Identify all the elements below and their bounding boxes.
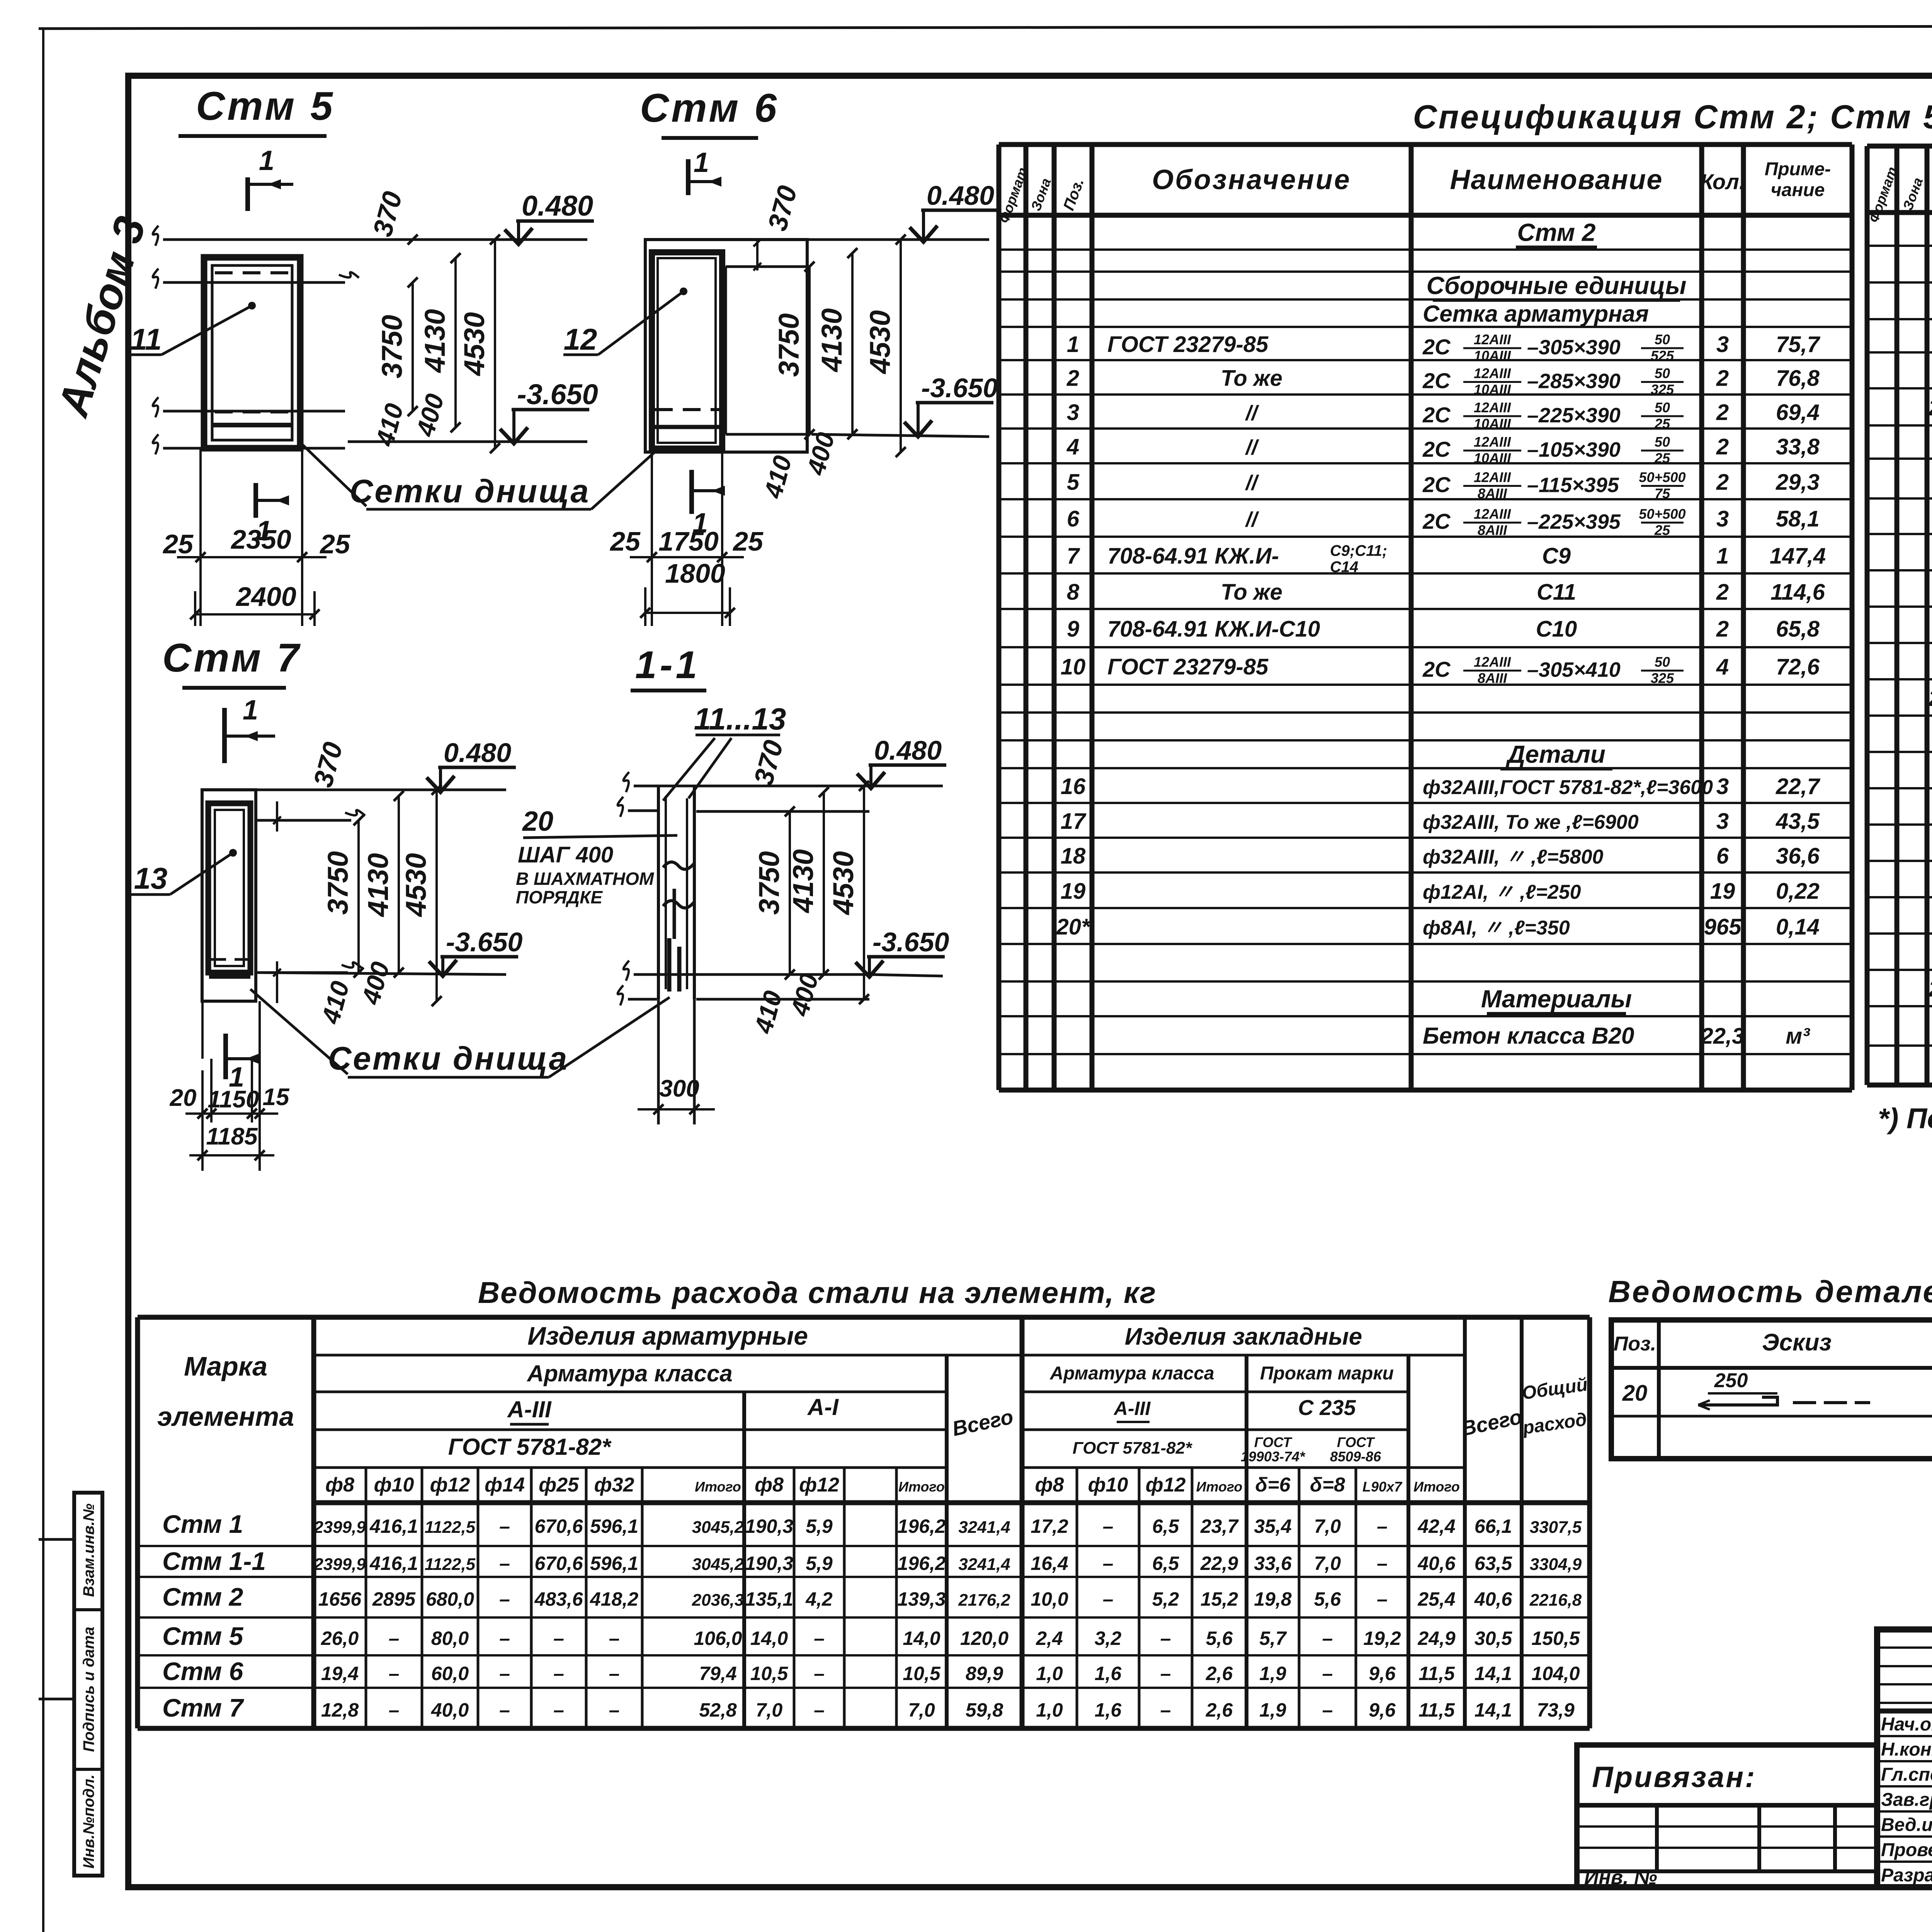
svg-text:5,7: 5,7 bbox=[1259, 1628, 1287, 1649]
svg-text:-3.650: -3.650 bbox=[921, 373, 998, 403]
svg-text:12АIII: 12АIII bbox=[1474, 469, 1511, 485]
svg-text:6: 6 bbox=[1716, 844, 1729, 869]
svg-text:10АIII: 10АIII bbox=[1474, 450, 1511, 466]
Stm5 wall panel outer bbox=[204, 257, 300, 448]
svg-text:12АIII: 12АIII bbox=[1474, 434, 1511, 450]
svg-text:11...13: 11...13 bbox=[694, 702, 786, 736]
svg-text:65,8: 65,8 bbox=[1776, 617, 1820, 642]
svg-text:3241,4: 3241,4 bbox=[958, 1518, 1010, 1537]
svg-text:33,6: 33,6 bbox=[1254, 1553, 1292, 1574]
svg-text:чание: чание bbox=[1771, 180, 1825, 201]
svg-text:69,4: 69,4 bbox=[1776, 400, 1820, 425]
svg-text:Итого: Итого bbox=[898, 1479, 945, 1495]
svg-text:Стм 7: Стм 7 bbox=[162, 1694, 245, 1722]
svg-text:40,6: 40,6 bbox=[1474, 1588, 1513, 1610]
svg-text:Провер.: Провер. bbox=[1881, 1840, 1932, 1861]
svg-text:Кол.: Кол. bbox=[1700, 170, 1745, 194]
svg-text:30,5: 30,5 bbox=[1475, 1628, 1513, 1649]
svg-text:–: – bbox=[1377, 1515, 1388, 1537]
svg-text:10,5: 10,5 bbox=[750, 1663, 789, 1684]
svg-text:2895: 2895 bbox=[372, 1588, 416, 1610]
Stm7 elevation -3.650 bbox=[256, 973, 506, 975]
svg-text:ГОСТ: ГОСТ bbox=[1254, 1434, 1293, 1450]
svg-text:14,1: 14,1 bbox=[1475, 1699, 1512, 1721]
svg-text:0.480: 0.480 bbox=[874, 735, 942, 765]
svg-text:–285×390: –285×390 bbox=[1527, 370, 1621, 393]
svg-text:Привязан:: Привязан: bbox=[1592, 1761, 1756, 1794]
svg-text:17,2: 17,2 bbox=[1031, 1515, 1068, 1537]
svg-text:–: – bbox=[814, 1699, 825, 1721]
svg-text:12АIII: 12АIII bbox=[1474, 366, 1511, 381]
svg-text:Марка: Марка bbox=[184, 1351, 267, 1381]
svg-text:0.480: 0.480 bbox=[522, 190, 593, 222]
svg-text:Обозначение: Обозначение bbox=[1152, 165, 1351, 196]
svg-text:25: 25 bbox=[1654, 450, 1670, 466]
svg-text:5,9: 5,9 bbox=[806, 1515, 833, 1537]
svg-text:16: 16 bbox=[1061, 774, 1086, 799]
fold tick lower bbox=[39, 1698, 73, 1701]
svg-text:–: – bbox=[499, 1663, 510, 1684]
svg-text:20: 20 bbox=[522, 806, 553, 837]
Stm5 vertical dims 3750 4130 4530 bbox=[412, 282, 414, 411]
svg-text:2: 2 bbox=[1716, 470, 1729, 495]
Stm6 outer box bbox=[645, 240, 807, 452]
sketch dash 2 bbox=[1824, 1401, 1847, 1404]
Stm5 bottom slab inner line bbox=[212, 423, 292, 427]
svg-text:25: 25 bbox=[1654, 416, 1670, 432]
svg-text:1: 1 bbox=[692, 508, 708, 539]
svg-text:965: 965 bbox=[1704, 915, 1742, 940]
svg-text:Стм 5: Стм 5 bbox=[162, 1622, 244, 1650]
Stm7 wall outer bbox=[202, 790, 256, 1001]
svg-text:ГОСТ 5781-82*: ГОСТ 5781-82* bbox=[1073, 1439, 1192, 1458]
svg-text:9: 9 bbox=[1067, 617, 1079, 642]
Stm7 bottom slab to right bbox=[256, 971, 348, 974]
svg-text:525: 525 bbox=[1651, 348, 1674, 364]
svg-text:2С: 2С bbox=[1422, 403, 1451, 427]
svg-text:8АIII: 8АIII bbox=[1478, 486, 1507, 502]
svg-text:Изделия закладные: Изделия закладные bbox=[1125, 1323, 1362, 1350]
svg-text:22,7: 22,7 bbox=[1776, 774, 1821, 799]
left margin strip bbox=[74, 1493, 102, 1876]
Stm5 ext line left bbox=[199, 448, 202, 626]
svg-text:1656: 1656 bbox=[318, 1588, 362, 1610]
svg-text:670,6: 670,6 bbox=[534, 1515, 583, 1537]
svg-text:Итого: Итого bbox=[1196, 1479, 1243, 1495]
svg-text:147,4: 147,4 bbox=[1770, 544, 1826, 569]
Stm6 section mark bottom bbox=[689, 470, 694, 514]
svg-text:58,1: 58,1 bbox=[1776, 507, 1820, 532]
svg-text:–: – bbox=[1160, 1663, 1171, 1684]
svg-text:С14: С14 bbox=[1330, 559, 1358, 576]
1-1 bar hooks bbox=[663, 862, 694, 869]
svg-text:7,0: 7,0 bbox=[908, 1699, 935, 1721]
svg-text:79,4: 79,4 bbox=[699, 1663, 736, 1684]
svg-text:596,1: 596,1 bbox=[590, 1515, 638, 1537]
svg-text:14,0: 14,0 bbox=[750, 1628, 788, 1649]
svg-text:7,0: 7,0 bbox=[1314, 1515, 1341, 1537]
svg-text:ф32: ф32 bbox=[594, 1474, 634, 1496]
svg-text:9,6: 9,6 bbox=[1369, 1663, 1396, 1684]
svg-text:–: – bbox=[499, 1699, 510, 1721]
svg-text:8509-86: 8509-86 bbox=[1330, 1449, 1381, 1464]
sheet outer border left bbox=[42, 29, 44, 1932]
svg-text:3: 3 bbox=[1716, 809, 1729, 834]
svg-text:–: – bbox=[1322, 1699, 1333, 1721]
svg-text:708-64.91 КЖ.И-: 708-64.91 КЖ.И- bbox=[1107, 544, 1279, 569]
svg-text:ф12АI, 〃 ,ℓ=250: ф12АI, 〃 ,ℓ=250 bbox=[1423, 881, 1581, 903]
svg-text:В ШАХМАТНОМ: В ШАХМАТНОМ bbox=[516, 869, 655, 889]
svg-text:75,7: 75,7 bbox=[1776, 332, 1821, 357]
svg-text:670,6: 670,6 bbox=[534, 1553, 583, 1574]
svg-text:35,4: 35,4 bbox=[1254, 1515, 1291, 1537]
svg-text:14,0: 14,0 bbox=[903, 1628, 940, 1649]
svg-text:2,4: 2,4 bbox=[1036, 1628, 1063, 1649]
Stm5 section mark top bbox=[245, 177, 250, 211]
svg-text:–: – bbox=[389, 1663, 400, 1684]
svg-text:8АIII: 8АIII bbox=[1478, 670, 1507, 686]
svg-text:114,6: 114,6 bbox=[1770, 580, 1825, 605]
svg-text:2С: 2С bbox=[1422, 509, 1451, 534]
svg-text:Ведомость расхода стали на: Ведомость расхода стали на элемент, кг bbox=[478, 1276, 1156, 1310]
svg-text:40,0: 40,0 bbox=[431, 1699, 469, 1721]
svg-text:20: 20 bbox=[170, 1085, 197, 1111]
svg-text:3241,4: 3241,4 bbox=[958, 1555, 1010, 1574]
svg-text:ф32АIII, 〃 ,ℓ=5800: ф32АIII, 〃 ,ℓ=5800 bbox=[1423, 846, 1603, 868]
specification table left half bbox=[999, 142, 1852, 147]
svg-text:40,6: 40,6 bbox=[1417, 1553, 1456, 1574]
svg-text:4130: 4130 bbox=[787, 849, 819, 914]
svg-text:Стм 2: Стм 2 bbox=[1517, 219, 1596, 247]
svg-text:А-III: А-III bbox=[507, 1396, 552, 1422]
svg-text:1,6: 1,6 bbox=[1095, 1663, 1122, 1684]
svg-text:Арматура класса: Арматура класса bbox=[526, 1361, 733, 1386]
svg-text:106,0: 106,0 bbox=[694, 1628, 742, 1649]
svg-text:11: 11 bbox=[131, 322, 162, 356]
svg-text:12АIII: 12АIII bbox=[1474, 654, 1511, 670]
svg-text:2399,9: 2399,9 bbox=[313, 1555, 366, 1574]
Stm6 elevation 0.480 bbox=[807, 238, 989, 241]
1-1 top slab bbox=[634, 785, 869, 787]
title block horizontal lines bbox=[1877, 1646, 1932, 1649]
1-1 vertical dims bbox=[789, 811, 791, 975]
Stm5 mesh dashed bottom bbox=[215, 410, 291, 413]
svg-text:19903-74*: 19903-74* bbox=[1241, 1449, 1306, 1464]
svg-text:δ=8: δ=8 bbox=[1310, 1474, 1345, 1496]
svg-text:–305×390: –305×390 bbox=[1527, 336, 1621, 359]
svg-text:60,0: 60,0 bbox=[431, 1663, 469, 1684]
svg-text:–: – bbox=[389, 1628, 400, 1649]
svg-text:11,5: 11,5 bbox=[1418, 1699, 1455, 1721]
svg-text:Прокат марки: Прокат марки bbox=[1260, 1363, 1394, 1384]
svg-text:–: – bbox=[1160, 1628, 1171, 1649]
svg-text:3045,2: 3045,2 bbox=[692, 1555, 744, 1574]
svg-text:2: 2 bbox=[1716, 366, 1729, 391]
svg-text:1,6: 1,6 bbox=[1095, 1699, 1122, 1721]
svg-text:12АIII: 12АIII bbox=[1474, 506, 1511, 522]
svg-text:19,8: 19,8 bbox=[1254, 1588, 1292, 1610]
svg-text:ф14: ф14 bbox=[485, 1474, 525, 1496]
svg-text:2С: 2С bbox=[1422, 369, 1451, 393]
svg-text:То же: То же bbox=[1221, 366, 1282, 391]
svg-text:–: – bbox=[1322, 1663, 1333, 1684]
svg-text:19: 19 bbox=[1061, 879, 1086, 904]
svg-text:150,5: 150,5 bbox=[1531, 1628, 1580, 1649]
svg-text:м³: м³ bbox=[1786, 1024, 1810, 1049]
svg-text:25: 25 bbox=[609, 526, 641, 556]
svg-text:–: – bbox=[499, 1515, 510, 1537]
Stm6 title underline bbox=[662, 136, 758, 140]
svg-text:-3.650: -3.650 bbox=[446, 927, 523, 957]
svg-text:0.480: 0.480 bbox=[927, 180, 994, 211]
svg-text:Вед.инж: Вед.инж bbox=[1881, 1815, 1932, 1835]
svg-text:418,2: 418,2 bbox=[590, 1588, 638, 1610]
svg-text:Стм 2: Стм 2 bbox=[162, 1583, 243, 1611]
svg-text:–: – bbox=[499, 1553, 510, 1574]
svg-text:19,4: 19,4 bbox=[321, 1663, 359, 1684]
1-1 elevation -3.650 bbox=[869, 975, 943, 976]
svg-text:76,8: 76,8 bbox=[1776, 366, 1820, 391]
svg-text:10,5: 10,5 bbox=[903, 1663, 941, 1684]
svg-text:Разраб.: Разраб. bbox=[1881, 1865, 1932, 1886]
svg-text:196,2: 196,2 bbox=[897, 1515, 946, 1537]
svg-text:ф32АIII, То же ,ℓ=6900: ф32АIII, То же ,ℓ=6900 bbox=[1423, 811, 1639, 833]
svg-text:Стм 1: Стм 1 bbox=[162, 1510, 243, 1538]
svg-text:Подпись и дата: Подпись и дата bbox=[80, 1627, 97, 1752]
privyazan block bbox=[1577, 1745, 1877, 1887]
specification table right half bbox=[1867, 144, 1932, 149]
svg-text:50: 50 bbox=[1655, 654, 1670, 670]
svg-text:7: 7 bbox=[1067, 544, 1080, 569]
svg-text:–: – bbox=[553, 1699, 564, 1721]
svg-text:22,3: 22,3 bbox=[1701, 1024, 1745, 1049]
svg-text:Стм 7: Стм 7 bbox=[162, 636, 301, 680]
svg-text:ф10: ф10 bbox=[374, 1474, 414, 1496]
svg-text:1: 1 bbox=[694, 147, 709, 178]
svg-text:2С: 2С bbox=[1422, 657, 1451, 682]
callout diagonal right bbox=[591, 450, 657, 509]
svg-text:10,0: 10,0 bbox=[1031, 1588, 1068, 1610]
svg-text:1: 1 bbox=[229, 1062, 244, 1093]
Stm7 wall panel thick bbox=[208, 803, 250, 973]
svg-text:3750: 3750 bbox=[773, 313, 805, 377]
svg-text:Сетка арматурная: Сетка арматурная bbox=[1423, 301, 1649, 327]
svg-text:5,2: 5,2 bbox=[1152, 1588, 1179, 1610]
svg-text:Инв. №: Инв. № bbox=[1584, 1866, 1657, 1889]
svg-text:5,9: 5,9 bbox=[806, 1553, 833, 1574]
svg-text:33,8: 33,8 bbox=[1776, 434, 1820, 459]
svg-text://: // bbox=[1245, 436, 1259, 459]
svg-text:36,6: 36,6 bbox=[1776, 844, 1820, 869]
svg-text:24,9: 24,9 bbox=[1417, 1628, 1456, 1649]
svg-text:3750: 3750 bbox=[753, 851, 785, 915]
Stm7 vertical dims bbox=[357, 820, 360, 973]
svg-text:1,9: 1,9 bbox=[1259, 1699, 1286, 1721]
Stm6 wall panel thick bbox=[652, 252, 722, 449]
svg-text:ф8: ф8 bbox=[755, 1474, 784, 1496]
svg-text://: // bbox=[1245, 471, 1259, 495]
svg-text:9,6: 9,6 bbox=[1369, 1699, 1396, 1721]
svg-text:–115×395: –115×395 bbox=[1527, 474, 1619, 497]
svg-text:10АIII: 10АIII bbox=[1474, 348, 1511, 364]
svg-text:-3.650: -3.650 bbox=[872, 927, 949, 957]
svg-text:2,6: 2,6 bbox=[1206, 1663, 1233, 1684]
Stm6 mesh dashed bbox=[655, 408, 719, 411]
svg-text:ГОСТ 23279-85: ГОСТ 23279-85 bbox=[1107, 655, 1269, 680]
svg-text:2216,8: 2216,8 bbox=[1529, 1591, 1582, 1610]
svg-text:Спецификация Стм 2; Стм 5..: Спецификация Стм 2; Стм 5... Стм 7 bbox=[1413, 99, 1932, 136]
note leader bbox=[523, 835, 677, 838]
svg-text:2,6: 2,6 bbox=[1206, 1699, 1233, 1721]
svg-text:50+500: 50+500 bbox=[1639, 469, 1685, 485]
svg-text:12АIII: 12АIII bbox=[1474, 400, 1511, 415]
Stm5 top slab lines bbox=[163, 238, 587, 241]
details list table bbox=[1611, 1320, 1932, 1459]
svg-text:2399,9: 2399,9 bbox=[313, 1518, 366, 1537]
svg-text:Нач.отд: Нач.отд bbox=[1881, 1714, 1932, 1735]
svg-text:–225×395: –225×395 bbox=[1527, 510, 1621, 534]
svg-text:δ=6: δ=6 bbox=[1255, 1474, 1291, 1496]
svg-text:Стм 1-1: Стм 1-1 bbox=[162, 1547, 266, 1575]
svg-text:2176,2: 2176,2 bbox=[958, 1591, 1010, 1610]
svg-text:6,5: 6,5 bbox=[1152, 1553, 1180, 1574]
Stm7 section mark top bbox=[222, 708, 227, 763]
svg-text:1,9: 1,9 bbox=[1259, 1663, 1286, 1684]
svg-text:ф12: ф12 bbox=[799, 1474, 839, 1496]
svg-text:75: 75 bbox=[1655, 486, 1670, 502]
callout2 diagonal right bbox=[549, 997, 670, 1077]
svg-text:20: 20 bbox=[1622, 1381, 1648, 1406]
svg-text:5,6: 5,6 bbox=[1314, 1588, 1342, 1610]
svg-text:3,2: 3,2 bbox=[1095, 1628, 1122, 1649]
svg-text:То же: То же bbox=[1221, 580, 1282, 605]
svg-text:4530: 4530 bbox=[400, 853, 432, 918]
svg-text:2036,3: 2036,3 bbox=[692, 1591, 744, 1610]
svg-text:52,8: 52,8 bbox=[699, 1699, 737, 1721]
svg-text:1800: 1800 bbox=[665, 558, 725, 588]
svg-text:ГОСТ: ГОСТ bbox=[1337, 1434, 1375, 1450]
svg-text:3: 3 bbox=[1716, 507, 1729, 532]
svg-text:29,3: 29,3 bbox=[1776, 470, 1820, 495]
svg-text:4: 4 bbox=[1066, 434, 1079, 459]
svg-text:Приме-: Приме- bbox=[1765, 159, 1831, 180]
svg-text:–: – bbox=[1377, 1588, 1388, 1610]
svg-text:Эскиз: Эскиз bbox=[1762, 1329, 1832, 1356]
svg-text:50: 50 bbox=[1655, 434, 1670, 450]
Stm5 mesh dashed top bbox=[215, 271, 291, 274]
svg-text:8АIII: 8АIII bbox=[1478, 522, 1507, 538]
svg-text:2С: 2С bbox=[1422, 437, 1451, 461]
svg-text:А-I: А-I bbox=[807, 1394, 839, 1420]
svg-text:20*: 20* bbox=[1928, 976, 1932, 1002]
svg-text:20*: 20* bbox=[1928, 395, 1932, 420]
svg-text:50: 50 bbox=[1655, 400, 1670, 415]
svg-text:4: 4 bbox=[1716, 655, 1729, 680]
svg-text:–: – bbox=[609, 1699, 620, 1721]
svg-text:Сетки днища: Сетки днища bbox=[350, 473, 590, 509]
svg-text:15: 15 bbox=[263, 1084, 290, 1111]
svg-text:2: 2 bbox=[1716, 580, 1729, 605]
svg-text:11,5: 11,5 bbox=[1418, 1663, 1455, 1684]
svg-text:Арматура класса: Арматура класса bbox=[1049, 1363, 1214, 1384]
svg-text:19,2: 19,2 bbox=[1363, 1628, 1401, 1649]
svg-text:1-1: 1-1 bbox=[635, 643, 701, 687]
svg-text:135,1: 135,1 bbox=[745, 1588, 793, 1610]
svg-text:ф10: ф10 bbox=[1088, 1474, 1128, 1496]
svg-text:3: 3 bbox=[1067, 400, 1079, 425]
callout2 underline bbox=[348, 1076, 549, 1079]
svg-text:–: – bbox=[609, 1663, 620, 1684]
svg-text:Итого: Итого bbox=[695, 1479, 741, 1495]
svg-text:14,1: 14,1 bbox=[1475, 1663, 1512, 1684]
svg-text:–225×390: –225×390 bbox=[1527, 404, 1621, 427]
steel consumption table bbox=[138, 1315, 1590, 1320]
svg-text:7,0: 7,0 bbox=[756, 1699, 783, 1721]
svg-text:Детали: Детали bbox=[1505, 740, 1605, 768]
fold tick upper bbox=[39, 1538, 73, 1541]
svg-text:1: 1 bbox=[1067, 332, 1079, 357]
svg-text:Стм 6: Стм 6 bbox=[640, 86, 779, 131]
svg-text:1122,5: 1122,5 bbox=[425, 1518, 476, 1537]
svg-text:Сборочные единицы: Сборочные единицы bbox=[1427, 272, 1687, 299]
svg-text:73,9: 73,9 bbox=[1537, 1699, 1575, 1721]
svg-text:416,1: 416,1 bbox=[369, 1515, 418, 1537]
svg-text:–: – bbox=[1377, 1553, 1388, 1574]
svg-text:3045,2: 3045,2 bbox=[692, 1518, 744, 1537]
svg-text:25: 25 bbox=[162, 529, 194, 559]
svg-text:190,3: 190,3 bbox=[745, 1515, 793, 1537]
Stm5 wall panel inner bbox=[212, 265, 292, 440]
svg-text:26,0: 26,0 bbox=[321, 1628, 359, 1649]
svg-text:–: – bbox=[1103, 1588, 1114, 1610]
svg-text:19: 19 bbox=[1710, 879, 1735, 904]
title block frame bbox=[1877, 1629, 1932, 1887]
svg-text:5: 5 bbox=[1067, 470, 1080, 495]
Stm6 bottom dims 25 1750 25 bbox=[651, 452, 653, 626]
svg-text:190,3: 190,3 bbox=[745, 1553, 793, 1574]
svg-text:10: 10 bbox=[1061, 655, 1086, 680]
svg-text:120,0: 120,0 bbox=[960, 1628, 1009, 1649]
svg-text:С 235: С 235 bbox=[1298, 1395, 1356, 1420]
1-1 title underline bbox=[631, 689, 706, 692]
svg-text:ф12: ф12 bbox=[1146, 1474, 1186, 1496]
svg-text:ф32АIII,ГОСТ 5781-82*,ℓ=3600: ф32АIII,ГОСТ 5781-82*,ℓ=3600 bbox=[1423, 776, 1713, 799]
sheet outer border top bbox=[39, 26, 1932, 29]
svg-text:6: 6 bbox=[1067, 507, 1080, 532]
svg-text:483,6: 483,6 bbox=[534, 1588, 583, 1610]
svg-text:89,9: 89,9 bbox=[966, 1663, 1003, 1684]
svg-text:3304,9: 3304,9 bbox=[1530, 1555, 1582, 1574]
Stm5 dim 2400 bbox=[195, 613, 315, 616]
svg-text:С9;С11;: С9;С11; bbox=[1330, 543, 1387, 560]
svg-text:2: 2 bbox=[1716, 434, 1729, 459]
1-1 rebar strokes bbox=[667, 938, 672, 992]
callout diagonal left bbox=[302, 444, 366, 506]
svg-text:3: 3 bbox=[1716, 332, 1729, 357]
Stm6 elevation -3.650 bbox=[811, 434, 989, 437]
svg-text:С9: С9 bbox=[1542, 544, 1571, 569]
1-1 bottom stem bbox=[657, 999, 660, 1124]
svg-text:Изделия арматурные: Изделия арматурные bbox=[527, 1321, 808, 1350]
svg-text:А-III: А-III bbox=[1113, 1398, 1151, 1419]
Stm6 dim 1800 bbox=[645, 612, 730, 614]
svg-text:4530: 4530 bbox=[827, 851, 859, 916]
sketch dash 3 bbox=[1855, 1401, 1870, 1404]
svg-text:1750: 1750 bbox=[658, 526, 719, 556]
svg-text:–: – bbox=[499, 1588, 510, 1610]
svg-text:13: 13 bbox=[134, 861, 168, 895]
svg-text:Инв.№подл.: Инв.№подл. bbox=[80, 1774, 97, 1869]
